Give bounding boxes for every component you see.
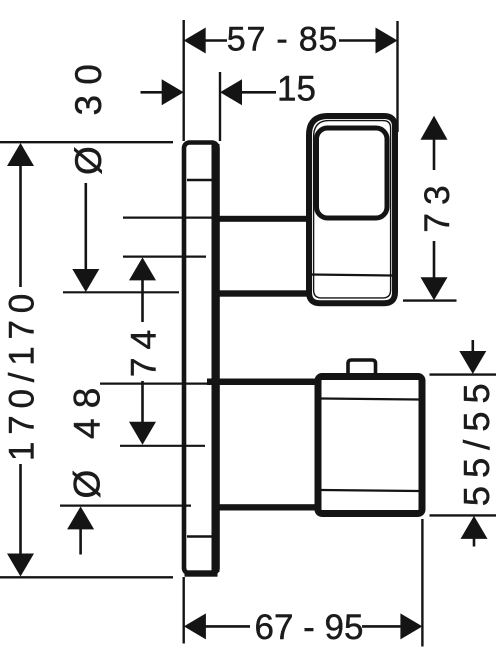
lower sleeve bottom extension line (Ø48) <box>60 505 191 507</box>
svg-text:74: 74 <box>124 322 164 378</box>
wall plate (side view) <box>184 143 220 577</box>
plate upper step line <box>187 179 212 181</box>
dimension Ø30 leader line <box>85 183 88 271</box>
dimension 74 bottom arrow <box>129 422 156 445</box>
dimension 170/170 line segments <box>19 165 22 287</box>
dimension 55/55 top extension line <box>430 373 496 375</box>
dimension 57-85 left arrow <box>184 28 206 54</box>
thermostat handle bottom band line <box>310 275 392 276</box>
dimension 170/170 bottom arrow <box>7 554 34 577</box>
dimension Ø48 arrow <box>67 506 94 529</box>
svg-text:55/55: 55/55 <box>456 375 496 506</box>
shut-off handle upper band line <box>322 399 419 400</box>
svg-text:57 - 85: 57 - 85 <box>227 21 338 59</box>
dimension 57-85 right arrow <box>376 28 398 54</box>
thermostat handle (top) outer body <box>309 116 395 303</box>
svg-text:170/170: 170/170 <box>3 287 42 461</box>
thermostat handle inner hairline <box>314 121 391 298</box>
dimension 73 line segments <box>433 139 436 170</box>
svg-text:Ø 48: Ø 48 <box>67 377 108 498</box>
dimension 73 bottom arrow <box>421 277 448 300</box>
upper sleeve top line <box>218 216 307 222</box>
dimension 67-95 left extension line <box>182 577 184 644</box>
upper sleeve bottom line <box>218 290 307 296</box>
dimension 74 line segments <box>141 280 144 323</box>
dimension 67-95 left arrow <box>184 613 206 639</box>
dimension Ø48 leader tail <box>79 529 82 555</box>
dimension 57-85 line segments <box>205 39 227 42</box>
svg-text:Ø 30: Ø 30 <box>68 54 109 175</box>
dimension 15 left arrow <box>162 79 184 105</box>
dimension 55/55 bottom arrow <box>461 516 488 539</box>
shut-off handle (bottom) body <box>318 377 422 514</box>
dimension 15 right arrow <box>220 79 242 105</box>
lower sleeve top line <box>207 379 316 386</box>
thermostat handle window ring <box>317 128 388 218</box>
dimension 55/55 top arrow <box>459 351 486 374</box>
svg-text:73: 73 <box>417 177 457 233</box>
dimension 73 top arrow <box>421 116 448 140</box>
dimension 55/55 bottom extension line <box>430 514 496 516</box>
dimension 74 bottom extension line <box>120 445 205 447</box>
svg-text:15: 15 <box>277 70 316 109</box>
shut-off handle (bottom) tab <box>348 360 376 375</box>
upper sleeve top extension line <box>123 217 219 219</box>
dimension 170/170 bottom extension line <box>0 576 173 578</box>
dimension 67-95 right arrow <box>400 613 422 639</box>
plate lower step line <box>187 535 212 537</box>
dimension Ø30 arrow <box>72 269 99 292</box>
lower sleeve bottom line <box>218 504 316 510</box>
dimension 170/170 top arrow <box>7 143 34 166</box>
shut-off handle lower band line <box>322 490 419 491</box>
dimension 67-95 right extension line <box>421 519 423 647</box>
dimension 74 top extension line <box>123 256 206 258</box>
dimension 57-85 right extension line <box>396 21 398 132</box>
svg-text:67 - 95: 67 - 95 <box>255 608 364 647</box>
dimension 15 right extension line <box>219 72 221 141</box>
dimension 73 bottom extension line <box>403 299 457 301</box>
lower sleeve top extension line (Ø48) <box>100 383 208 385</box>
dimension 74 top arrow <box>129 257 156 280</box>
dimension 57-85 left extension line <box>182 20 184 141</box>
upper sleeve bottom extension line (Ø30) <box>63 291 179 293</box>
dimension 170/170 top extension line <box>0 141 173 143</box>
